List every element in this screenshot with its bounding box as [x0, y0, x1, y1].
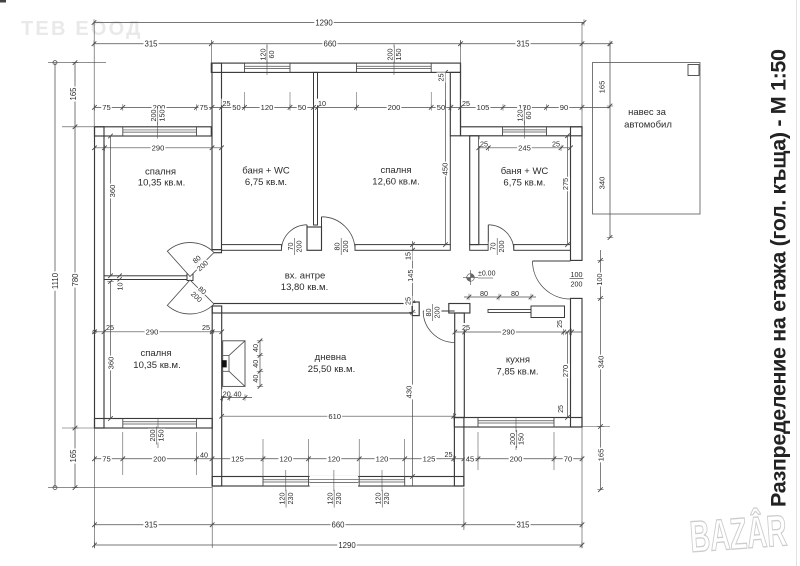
svg-text:40: 40: [234, 390, 242, 399]
svg-text:6,75 кв.м.: 6,75 кв.м.: [503, 177, 545, 188]
svg-text:25: 25: [462, 323, 470, 332]
svg-text:10: 10: [318, 99, 326, 108]
svg-text:100: 100: [571, 270, 583, 279]
svg-text:200: 200: [497, 241, 506, 253]
svg-text:105: 105: [477, 103, 490, 112]
svg-text:12,60 кв.м.: 12,60 кв.м.: [372, 176, 419, 187]
svg-text:15: 15: [404, 252, 413, 260]
svg-text:120: 120: [279, 455, 292, 464]
svg-text:75: 75: [199, 103, 207, 112]
svg-text:10: 10: [116, 283, 125, 291]
svg-text:BAZÂR: BAZÂR: [688, 505, 788, 562]
svg-text:340: 340: [597, 177, 606, 190]
svg-text:60: 60: [267, 51, 276, 59]
svg-text:150: 150: [158, 110, 167, 122]
svg-text:40: 40: [200, 451, 208, 460]
svg-text:360: 360: [108, 185, 117, 198]
svg-text:40: 40: [251, 360, 260, 368]
svg-text:спалня: спалня: [140, 348, 171, 359]
svg-text:340: 340: [596, 356, 605, 369]
svg-text:150: 150: [394, 49, 403, 61]
svg-text:45: 45: [466, 455, 474, 464]
svg-text:315: 315: [516, 40, 530, 49]
svg-text:200: 200: [153, 455, 166, 464]
svg-text:баня + WC: баня + WC: [501, 166, 549, 177]
svg-text:120: 120: [376, 455, 389, 464]
svg-text:1110: 1110: [51, 272, 60, 289]
svg-text:120: 120: [328, 455, 341, 464]
svg-text:230: 230: [334, 493, 343, 505]
svg-text:1290: 1290: [315, 18, 333, 27]
svg-text:230: 230: [382, 493, 391, 505]
svg-text:40: 40: [251, 375, 260, 383]
svg-text:60: 60: [524, 112, 533, 120]
svg-text:70: 70: [564, 455, 572, 464]
svg-text:дневна: дневна: [315, 352, 347, 363]
svg-text:125: 125: [423, 455, 436, 464]
svg-text:660: 660: [331, 521, 345, 530]
svg-text:50: 50: [232, 103, 240, 112]
svg-text:200: 200: [341, 241, 350, 253]
svg-text:кухня: кухня: [506, 354, 530, 365]
svg-text:430: 430: [404, 386, 413, 399]
svg-text:10,35 кв.м.: 10,35 кв.м.: [138, 177, 185, 188]
svg-text:125: 125: [231, 455, 244, 464]
svg-text:245: 245: [518, 144, 531, 153]
svg-text:270: 270: [561, 365, 570, 377]
svg-text:275: 275: [561, 178, 570, 190]
svg-text:780: 780: [71, 273, 80, 287]
svg-text:25: 25: [106, 323, 114, 332]
svg-text:165: 165: [597, 81, 606, 94]
svg-text:Разпределение на етажа (гол. к: Разпределение на етажа (гол. къща) - М 1…: [767, 49, 791, 507]
svg-text:автомобил: автомобил: [624, 119, 672, 130]
svg-text:спалня: спалня: [380, 165, 411, 176]
svg-text:спалня: спалня: [145, 166, 176, 177]
svg-text:10,35 кв.м.: 10,35 кв.м.: [133, 360, 180, 371]
svg-text:25: 25: [445, 450, 453, 459]
svg-text:200: 200: [433, 307, 442, 319]
svg-text:200: 200: [571, 280, 583, 289]
svg-text:450: 450: [440, 163, 449, 176]
svg-text:1290: 1290: [338, 541, 356, 550]
svg-text:80: 80: [480, 289, 488, 298]
svg-text:25: 25: [202, 323, 210, 332]
svg-text:навес за: навес за: [628, 107, 666, 118]
svg-text:315: 315: [516, 521, 530, 530]
svg-text:200: 200: [295, 241, 304, 253]
svg-text:50: 50: [298, 103, 306, 112]
svg-text:6,75 кв.м.: 6,75 кв.м.: [245, 177, 287, 188]
svg-text:315: 315: [144, 521, 158, 530]
svg-text:25: 25: [480, 140, 488, 149]
svg-text:290: 290: [152, 144, 165, 153]
svg-text:165: 165: [596, 449, 605, 462]
svg-text:25: 25: [437, 74, 446, 82]
svg-text:290: 290: [146, 328, 159, 337]
svg-text:100: 100: [595, 274, 604, 286]
svg-text:вх. антре: вх. антре: [285, 270, 326, 281]
svg-text:25: 25: [558, 405, 565, 413]
svg-text:ТЕВ ЕООД: ТЕВ ЕООД: [21, 18, 143, 40]
svg-text:90: 90: [560, 103, 568, 112]
svg-text:±0.00: ±0.00: [478, 270, 496, 277]
svg-text:25: 25: [462, 99, 470, 108]
svg-text:20: 20: [223, 390, 231, 399]
svg-text:25,50 кв.м.: 25,50 кв.м.: [308, 364, 355, 375]
svg-text:360: 360: [106, 357, 115, 370]
svg-text:200: 200: [388, 103, 401, 112]
svg-text:145: 145: [406, 270, 415, 282]
svg-text:40: 40: [251, 344, 260, 352]
svg-text:120: 120: [261, 103, 274, 112]
svg-text:75: 75: [102, 103, 110, 112]
svg-text:25: 25: [223, 99, 231, 108]
svg-text:200: 200: [510, 455, 523, 464]
svg-text:290: 290: [502, 328, 515, 337]
svg-text:25: 25: [404, 297, 413, 305]
svg-text:75: 75: [102, 455, 110, 464]
svg-text:7,85 кв.м.: 7,85 кв.м.: [496, 366, 538, 377]
svg-text:25: 25: [557, 320, 564, 328]
svg-text:80: 80: [511, 289, 519, 298]
svg-text:13,80 кв.м.: 13,80 кв.м.: [281, 282, 328, 293]
svg-text:баня + WC: баня + WC: [242, 165, 290, 176]
svg-text:660: 660: [323, 40, 337, 49]
svg-text:165: 165: [69, 87, 78, 101]
svg-text:150: 150: [157, 430, 166, 442]
svg-text:610: 610: [328, 412, 341, 421]
svg-text:150: 150: [517, 433, 526, 445]
svg-text:315: 315: [144, 40, 158, 49]
svg-text:25: 25: [552, 140, 560, 149]
svg-text:50: 50: [437, 103, 445, 112]
svg-text:230: 230: [286, 493, 295, 505]
svg-text:165: 165: [69, 449, 78, 463]
